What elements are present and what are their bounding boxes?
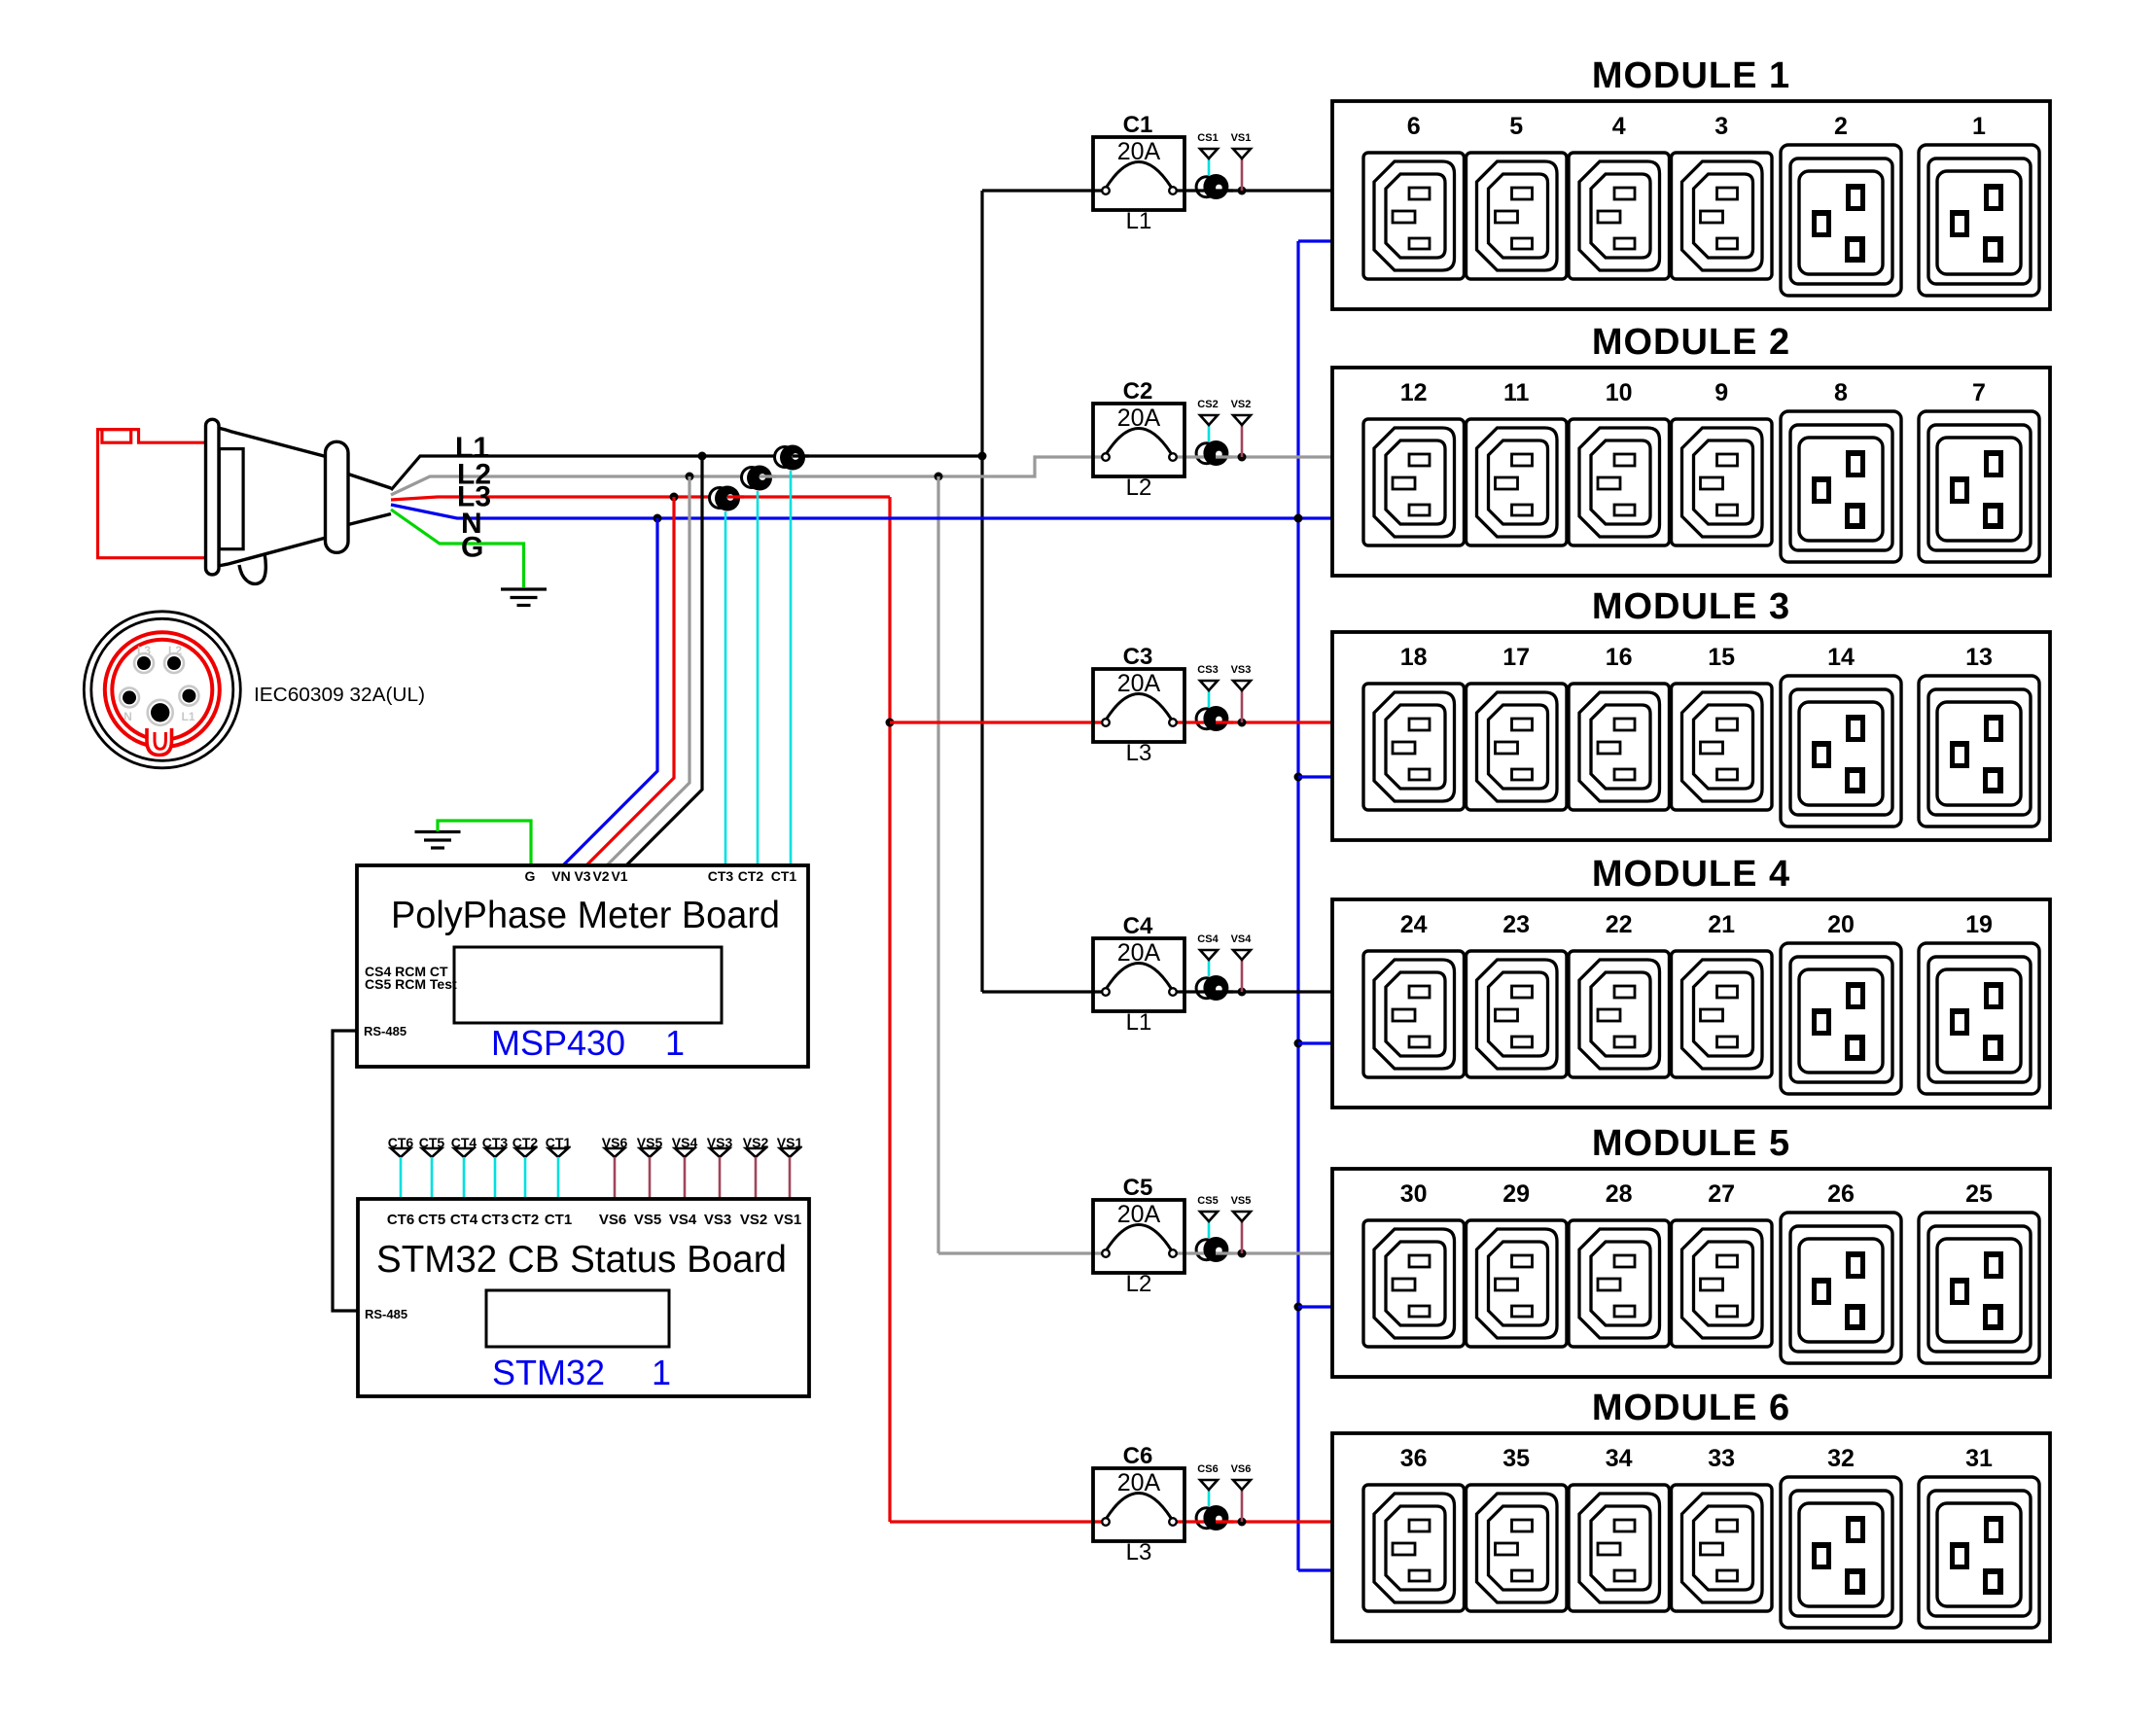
wire VS6 (maroon) into status board (614, 1157, 617, 1199)
current sensor CS6 ring (1196, 1508, 1217, 1529)
svg-text:23: 23 (1502, 911, 1530, 938)
plug cap latch tab (102, 430, 131, 443)
svg-text:VS5: VS5 (634, 1212, 661, 1228)
svg-text:2: 2 (1834, 113, 1848, 140)
svg-text:MODULE 1: MODULE 1 (1592, 55, 1790, 96)
wire N branch to module 5 (1298, 1305, 1334, 1308)
circuit breaker C4 box (1093, 938, 1184, 1011)
outlet 3 (IEC C13) (1672, 153, 1773, 279)
MODULE 6 enclosure box (1332, 1433, 2050, 1641)
svg-text:CT2: CT2 (512, 1212, 539, 1228)
outlet 22 (IEC C13) (1569, 951, 1670, 1077)
wire N branch to module 4 (1298, 1041, 1334, 1044)
breaker C1 left terminal (1102, 187, 1110, 194)
breaker C2 left terminal (1102, 453, 1110, 461)
outlet 33 (IEC C13) (1672, 1485, 1773, 1611)
svg-text:IEC60309 32A(UL): IEC60309 32A(UL) (254, 685, 425, 706)
svg-text:C6: C6 (1123, 1443, 1153, 1469)
svg-text:20A: 20A (1117, 1201, 1161, 1228)
outlet 28 (IEC C13) (1569, 1220, 1670, 1347)
breaker C5 arc contact (1107, 1225, 1171, 1250)
wire VS2 (maroon) to net arrow (1241, 425, 1244, 457)
svg-text:L1: L1 (1126, 1009, 1152, 1036)
wire CS2 (cyan) to net arrow (1208, 425, 1211, 441)
wire from breaker C4 to module 4 (1177, 990, 1334, 993)
wire segment over CS3 core (1216, 721, 1233, 723)
wire CS3 (cyan) to net arrow (1208, 690, 1211, 707)
wire from breaker C3 to module 3 (1177, 721, 1334, 723)
node VS1 tap (1238, 187, 1247, 195)
svg-text:33: 33 (1708, 1445, 1735, 1472)
wire N branch to module 6 (1298, 1568, 1334, 1571)
wire CT5 (cyan) into status board (431, 1157, 434, 1199)
svg-text:CT3: CT3 (708, 868, 734, 884)
svg-text:MODULE 4: MODULE 4 (1592, 854, 1790, 895)
current sensor CS4 ring (1196, 978, 1217, 999)
outlet 9 (IEC C13) (1672, 419, 1773, 545)
svg-text:3: 3 (1714, 113, 1728, 140)
outlet 30 (IEC C13) (1363, 1220, 1465, 1347)
node VS2 tap (1238, 453, 1247, 462)
wire L2 to breaker C5 (938, 1251, 1103, 1254)
wire L3 vertical feeder (888, 497, 891, 1522)
current sensor CS5 ring (1196, 1240, 1217, 1260)
svg-text:CT1: CT1 (545, 1212, 572, 1228)
svg-text:26: 26 (1827, 1180, 1855, 1208)
breaker C3 arc contact (1107, 694, 1171, 720)
node L1 tap junction (978, 452, 987, 461)
svg-text:11: 11 (1503, 379, 1530, 406)
svg-text:MODULE 2: MODULE 2 (1592, 322, 1790, 363)
svg-text:19: 19 (1965, 911, 1993, 938)
wire L2 phase (gray) from plug (391, 457, 1103, 495)
circuit breaker C1 box (1093, 137, 1184, 210)
plug body cone upper line (218, 428, 326, 457)
svg-text:L2: L2 (168, 644, 182, 657)
svg-text:C5: C5 (1123, 1175, 1153, 1201)
wire CT3 secondary (cyan) to meter board (725, 511, 727, 865)
plug body cone lower line (218, 538, 326, 566)
wire L3 segment over CT3 (727, 495, 744, 498)
svg-text:12: 12 (1400, 379, 1428, 406)
node N junction module 5 (1294, 1303, 1303, 1312)
outlet 19 (IEC C19) (1919, 943, 2039, 1094)
svg-text:G: G (461, 532, 483, 564)
svg-text:28: 28 (1606, 1180, 1633, 1208)
wire N branch to module 1 (1298, 239, 1334, 242)
svg-text:27: 27 (1708, 1180, 1735, 1208)
current transformer CT1 on main (white ring) (775, 447, 795, 468)
svg-text:6: 6 (1407, 113, 1421, 140)
svg-text:STM32 CB Status Board: STM32 CB Status Board (376, 1239, 787, 1281)
wire RS-485 bus between boards (333, 1031, 359, 1311)
wire CT2 secondary (cyan) to meter board (757, 491, 760, 865)
current sensor CS1 ring (1196, 177, 1217, 197)
svg-text:29: 29 (1502, 1180, 1530, 1208)
wire L3 to breaker C3 (890, 721, 1103, 723)
pin N of connector (120, 687, 139, 707)
wire from breaker C2 to module 2 (1177, 455, 1334, 458)
MODULE 2 enclosure box (1332, 368, 2050, 576)
outlet 1 (IEC C19) (1919, 145, 2039, 296)
wire VS3 (maroon) into status board (719, 1157, 722, 1199)
outlet 17 (IEC C13) (1467, 684, 1568, 810)
wire V3 sense (red) to meter board (586, 497, 674, 865)
svg-text:8: 8 (1834, 379, 1848, 406)
outlet 13 (IEC C19) (1919, 676, 2039, 827)
outlet 32 (IEC C19) (1781, 1477, 1901, 1628)
node V1 tap on L1 (698, 452, 707, 461)
wire CS1 (cyan) to net arrow (1208, 158, 1211, 175)
outlet 10 (IEC C13) (1569, 419, 1670, 545)
svg-text:L3: L3 (1126, 1539, 1152, 1566)
svg-text:VS6: VS6 (599, 1212, 626, 1228)
svg-text:G: G (525, 868, 536, 884)
wire VS6 (maroon) to net arrow (1241, 1490, 1244, 1522)
pin L2 of connector (164, 653, 184, 673)
plug nose lower line (348, 514, 391, 525)
wire VN sense (blue) to meter board (563, 518, 657, 865)
outlet 21 (IEC C13) (1672, 951, 1773, 1077)
svg-text:VS1: VS1 (774, 1212, 801, 1228)
wire L2 segment over CT2 (760, 475, 776, 477)
current transformer CT1 core (780, 445, 805, 471)
node VS4 tap (1238, 988, 1247, 997)
MODULE 5 enclosure box (1332, 1169, 2050, 1377)
svg-text:CS1: CS1 (1197, 132, 1218, 144)
node VS5 tap (1238, 1249, 1247, 1258)
svg-text:C4: C4 (1123, 913, 1153, 939)
wire CS5 (cyan) to net arrow (1208, 1221, 1211, 1238)
svg-text:16: 16 (1606, 644, 1633, 671)
outlet 4 (IEC C13) (1569, 153, 1670, 279)
outlet 27 (IEC C13) (1672, 1220, 1773, 1347)
svg-text:CS6: CS6 (1197, 1463, 1218, 1475)
outlet 11 (IEC C13) (1467, 419, 1568, 545)
outlet 26 (IEC C19) (1781, 1213, 1901, 1363)
wire segment over CS1 core (1216, 189, 1233, 192)
IEC60309 connector red ring outer (105, 632, 220, 747)
ground symbol at meter board (415, 832, 461, 849)
svg-text:V1: V1 (611, 868, 627, 884)
current transformer CT3 core (715, 486, 740, 511)
wire CT2 (cyan) into status board (524, 1157, 527, 1199)
outlet 24 (IEC C13) (1363, 951, 1465, 1077)
svg-text:13: 13 (1965, 644, 1993, 671)
wire from breaker C6 to module 6 (1177, 1520, 1334, 1523)
svg-text:MODULE 3: MODULE 3 (1592, 586, 1790, 627)
svg-text:C1: C1 (1123, 112, 1153, 138)
wire CS6 (cyan) to net arrow (1208, 1490, 1211, 1506)
outlet 8 (IEC C19) (1781, 411, 1901, 562)
outlet 12 (IEC C13) (1363, 419, 1465, 545)
svg-text:CT6: CT6 (387, 1212, 414, 1228)
wire V1 sense (black) to meter board (626, 456, 702, 865)
outlet 31 (IEC C19) (1919, 1477, 2039, 1628)
wire V2 sense (gray) to meter board (607, 476, 689, 865)
svg-text:24: 24 (1400, 911, 1428, 938)
wire CT4 (cyan) into status board (463, 1157, 466, 1199)
status board display window (486, 1290, 669, 1347)
svg-text:9: 9 (1714, 379, 1728, 406)
svg-text:14: 14 (1827, 644, 1855, 671)
wire G (green) ground to meter board G pin (438, 821, 531, 865)
svg-text:VS6: VS6 (1231, 1463, 1252, 1475)
svg-text:36: 36 (1400, 1445, 1428, 1472)
wire VS4 (maroon) into status board (684, 1157, 687, 1199)
wire VS5 (maroon) to net arrow (1241, 1221, 1244, 1253)
breaker C4 right terminal (1169, 988, 1177, 996)
svg-text:31: 31 (1965, 1445, 1993, 1472)
breaker C2 arc contact (1107, 429, 1171, 454)
wire L3 phase (red) from plug (391, 497, 890, 500)
outlet 29 (IEC C13) (1467, 1220, 1568, 1347)
outlet 2 (IEC C19) (1781, 145, 1901, 296)
breaker C5 left terminal (1102, 1249, 1110, 1257)
breaker C3 left terminal (1102, 719, 1110, 726)
current sensor CS3 core (1203, 706, 1228, 731)
node N junction module 3 (1294, 773, 1303, 782)
pin PE of connector (148, 700, 173, 725)
svg-text:VN: VN (551, 868, 570, 884)
svg-text:1: 1 (1972, 113, 1986, 140)
node V2 tap on L2 (686, 473, 694, 481)
wire L1 to breaker C4 (982, 990, 1103, 993)
current sensor CS4 core (1203, 975, 1228, 1001)
svg-text:VS1: VS1 (1231, 132, 1252, 144)
plug cable-gland foot tab (239, 553, 265, 583)
svg-text:MODULE 6: MODULE 6 (1592, 1388, 1790, 1428)
wire N neutral (blue) from plug (391, 505, 1332, 518)
wire from breaker C1 to module 1 (1177, 189, 1334, 192)
svg-text:CS5 RCM Test: CS5 RCM Test (365, 976, 457, 992)
wire N vertical bus (1296, 241, 1299, 1570)
svg-text:PolyPhase Meter Board: PolyPhase Meter Board (391, 895, 780, 936)
wire VS4 (maroon) to net arrow (1241, 960, 1244, 992)
pin L1 of connector (179, 686, 198, 706)
svg-text:20A: 20A (1117, 138, 1161, 165)
IEC60309 connector red ring inner (112, 640, 212, 740)
breaker C6 left terminal (1102, 1518, 1110, 1526)
breaker C5 right terminal (1169, 1249, 1177, 1257)
IEC60309 keyway notch (147, 728, 172, 756)
breaker C2 right terminal (1169, 453, 1177, 461)
outlet 16 (IEC C13) (1569, 684, 1670, 810)
wire from breaker C5 to module 5 (1177, 1251, 1334, 1254)
circuit breaker C2 box (1093, 404, 1184, 476)
svg-text:L3: L3 (137, 644, 151, 657)
svg-text:V2: V2 (592, 868, 609, 884)
outlet 5 (IEC C13) (1467, 153, 1568, 279)
wire L1 to breaker C1 (982, 189, 1103, 192)
wire L1 vertical feeder (980, 191, 983, 992)
node V3 tap on L3 (670, 493, 679, 502)
PolyPhase Meter Board box U1 (357, 865, 808, 1067)
meter board display window (454, 947, 722, 1023)
svg-text:7: 7 (1972, 379, 1986, 406)
node N junction module 4 (1294, 1039, 1303, 1048)
svg-text:18: 18 (1400, 644, 1428, 671)
wire CT1 secondary (cyan) to meter board (790, 471, 793, 865)
svg-text:21: 21 (1708, 911, 1735, 938)
wire VS1 (maroon) into status board (789, 1157, 792, 1199)
svg-text:1: 1 (665, 1023, 685, 1063)
outlet 7 (IEC C19) (1919, 411, 2039, 562)
svg-text:CT2: CT2 (738, 868, 764, 884)
wire G ground (green) from plug (391, 510, 524, 587)
wire VS3 (maroon) to net arrow (1241, 690, 1244, 722)
wire CT6 (cyan) into status board (400, 1157, 403, 1199)
outlet 36 (IEC C13) (1363, 1485, 1465, 1611)
node VS3 tap (1238, 719, 1247, 727)
current sensor CS5 core (1203, 1237, 1228, 1262)
breaker C4 arc contact (1107, 964, 1171, 989)
wire CS4 (cyan) to net arrow (1208, 960, 1211, 976)
svg-text:L1: L1 (181, 710, 194, 723)
svg-text:15: 15 (1708, 644, 1735, 671)
outlet 6 (IEC C13) (1363, 153, 1465, 279)
circuit breaker C6 box (1093, 1468, 1184, 1541)
STM32 CB Status Board box U2 (358, 1199, 809, 1396)
outlet 18 (IEC C13) (1363, 684, 1465, 810)
svg-text:MODULE 5: MODULE 5 (1592, 1123, 1790, 1164)
svg-text:C2: C2 (1123, 378, 1153, 405)
wire segment over CS6 core (1216, 1520, 1233, 1523)
svg-text:VS4: VS4 (669, 1212, 697, 1228)
current transformer CT2 on main (white ring) (742, 468, 762, 488)
node L3 tap junction (886, 719, 895, 727)
wire segment over CS5 core (1216, 1251, 1233, 1254)
svg-text:10: 10 (1606, 379, 1633, 406)
outlet 25 (IEC C19) (1919, 1213, 2039, 1363)
svg-text:L3: L3 (1126, 740, 1152, 766)
svg-text:STM32: STM32 (492, 1353, 605, 1392)
svg-text:CS5: CS5 (1197, 1195, 1218, 1207)
svg-text:17: 17 (1502, 644, 1530, 671)
wire CT1 (cyan) into status board (557, 1157, 560, 1199)
svg-text:RS-485: RS-485 (365, 1307, 407, 1321)
svg-text:CT1: CT1 (771, 868, 797, 884)
wire N branch to module 3 (1298, 775, 1334, 778)
outlet 35 (IEC C13) (1467, 1485, 1568, 1611)
svg-text:VS3: VS3 (704, 1212, 731, 1228)
breaker C6 right terminal (1169, 1518, 1177, 1526)
ground symbol at plug (501, 589, 547, 606)
svg-text:20A: 20A (1117, 939, 1161, 967)
breaker C3 right terminal (1169, 719, 1177, 726)
svg-text:20A: 20A (1117, 1469, 1161, 1496)
outlet 14 (IEC C19) (1781, 676, 1901, 827)
outlet 34 (IEC C13) (1569, 1485, 1670, 1611)
wire L3 to breaker C6 (890, 1520, 1103, 1523)
plug collar ring (326, 441, 349, 552)
MODULE 3 enclosure box (1332, 632, 2050, 840)
svg-text:L2: L2 (1126, 475, 1152, 501)
svg-text:1: 1 (652, 1353, 671, 1392)
wire VS2 (maroon) into status board (755, 1157, 758, 1199)
circuit breaker C3 box (1093, 669, 1184, 742)
svg-text:CS4: CS4 (1197, 933, 1219, 945)
current transformer CT2 core (747, 466, 772, 491)
IEC60309 connector face outer ring (84, 612, 240, 768)
current transformer CT3 on main (white ring) (710, 488, 730, 509)
svg-text:5: 5 (1509, 113, 1523, 140)
svg-text:20A: 20A (1117, 670, 1161, 697)
svg-text:CS3: CS3 (1197, 664, 1218, 676)
svg-text:VS3: VS3 (1231, 664, 1252, 676)
svg-text:4: 4 (1612, 113, 1626, 140)
svg-text:25: 25 (1965, 1180, 1993, 1208)
svg-text:20: 20 (1827, 911, 1855, 938)
current sensor CS1 core (1203, 174, 1228, 199)
current sensor CS2 ring (1196, 443, 1217, 464)
pin L3 of connector (134, 653, 154, 673)
outlet 20 (IEC C19) (1781, 943, 1901, 1094)
svg-text:32: 32 (1827, 1445, 1855, 1472)
svg-text:MSP430: MSP430 (491, 1023, 625, 1063)
svg-text:RS-485: RS-485 (364, 1024, 406, 1038)
svg-text:VS5: VS5 (1231, 1195, 1252, 1207)
IEC60309 connector face second ring (91, 618, 233, 760)
IEC60309 32A plug cap (red housing outline) (98, 430, 208, 558)
plug body inner face (219, 449, 243, 549)
svg-text:35: 35 (1502, 1445, 1530, 1472)
node N junction at module 2 feed (1294, 514, 1303, 523)
current sensor CS6 core (1203, 1505, 1228, 1530)
wire L2 vertical feeder (937, 476, 939, 1253)
node L2 tap junction (935, 473, 943, 481)
svg-text:CT4: CT4 (450, 1212, 478, 1228)
svg-text:L1: L1 (1126, 208, 1152, 234)
current sensor CS3 ring (1196, 709, 1217, 729)
breaker C4 left terminal (1102, 988, 1110, 996)
circuit breaker C5 box (1093, 1200, 1184, 1273)
svg-text:L2: L2 (1126, 1271, 1152, 1297)
svg-text:VS2: VS2 (740, 1212, 767, 1228)
MODULE 4 enclosure box (1332, 899, 2050, 1108)
svg-text:30: 30 (1400, 1180, 1428, 1208)
svg-text:CS2: CS2 (1197, 399, 1218, 410)
wire segment over CS4 core (1216, 990, 1233, 993)
current sensor CS2 core (1203, 440, 1228, 466)
svg-text:34: 34 (1606, 1445, 1633, 1472)
breaker C1 arc contact (1107, 162, 1171, 188)
svg-text:C3: C3 (1123, 644, 1153, 670)
wire CT3 (cyan) into status board (494, 1157, 497, 1199)
MODULE 1 enclosure box (1332, 101, 2050, 309)
node VS6 tap (1238, 1518, 1247, 1527)
svg-text:CT5: CT5 (418, 1212, 445, 1228)
outlet 23 (IEC C13) (1467, 951, 1568, 1077)
plug body flange (206, 419, 220, 575)
breaker C1 right terminal (1169, 187, 1177, 194)
svg-text:22: 22 (1606, 911, 1633, 938)
svg-text:V3: V3 (574, 868, 590, 884)
wire L1 segment over CT1 (793, 454, 809, 457)
plug nose upper line (348, 475, 391, 489)
wire VS1 (maroon) to net arrow (1241, 158, 1244, 191)
svg-text:CT3: CT3 (481, 1212, 509, 1228)
wire VS5 (maroon) into status board (649, 1157, 652, 1199)
wire segment over CS2 core (1216, 455, 1233, 458)
svg-text:VS4: VS4 (1231, 933, 1253, 945)
wire L1 phase (black) from plug to junction (391, 456, 982, 490)
outlet 15 (IEC C13) (1672, 684, 1773, 810)
svg-text:VS2: VS2 (1231, 399, 1252, 410)
breaker C6 arc contact (1107, 1494, 1171, 1519)
svg-text:N: N (124, 710, 132, 723)
svg-text:20A: 20A (1117, 405, 1161, 432)
